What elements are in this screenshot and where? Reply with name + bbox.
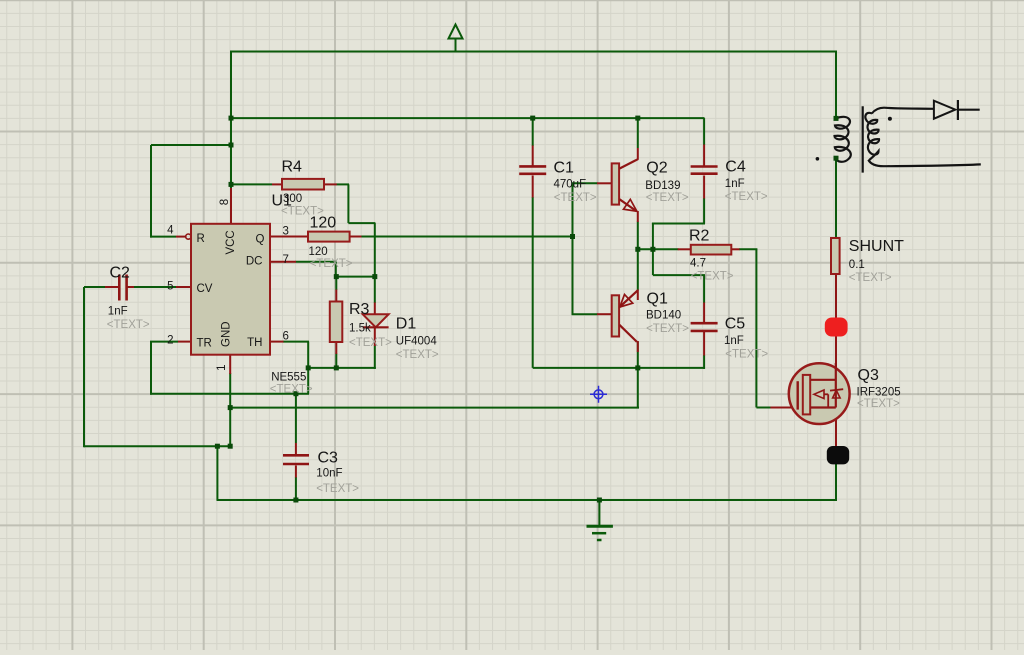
svg-text:<TEXT>: <TEXT>	[554, 192, 597, 204]
svg-text:0.1: 0.1	[849, 259, 865, 271]
svg-text:4: 4	[167, 225, 174, 237]
svg-text:<TEXT>: <TEXT>	[270, 383, 313, 395]
svg-text:VCC: VCC	[225, 230, 237, 254]
svg-text:<TEXT>: <TEXT>	[691, 270, 734, 282]
svg-text:Q3: Q3	[858, 367, 879, 384]
svg-text:<TEXT>: <TEXT>	[396, 349, 439, 361]
svg-text:8: 8	[219, 199, 231, 205]
svg-text:D1: D1	[396, 316, 417, 333]
svg-text:CV: CV	[197, 283, 213, 295]
svg-text:<TEXT>: <TEXT>	[310, 258, 353, 270]
svg-text:C2: C2	[110, 265, 131, 282]
svg-text:UF4004: UF4004	[396, 336, 438, 348]
svg-text:<TEXT>: <TEXT>	[725, 191, 768, 203]
svg-text:TH: TH	[247, 337, 262, 349]
svg-text:R: R	[197, 233, 205, 245]
svg-text:<TEXT>: <TEXT>	[646, 192, 689, 204]
svg-text:R4: R4	[282, 159, 303, 176]
svg-text:6: 6	[283, 331, 289, 343]
svg-text:DC: DC	[246, 256, 263, 268]
svg-text:<TEXT>: <TEXT>	[107, 319, 150, 331]
svg-text:C4: C4	[725, 158, 746, 175]
svg-text:1.5k: 1.5k	[349, 323, 371, 335]
svg-text:GND: GND	[220, 321, 232, 347]
svg-text:<TEXT>: <TEXT>	[857, 398, 900, 410]
svg-text:<TEXT>: <TEXT>	[849, 272, 892, 284]
svg-text:4.7: 4.7	[690, 258, 706, 270]
svg-text:Q1: Q1	[647, 291, 668, 308]
svg-text:<TEXT>: <TEXT>	[316, 483, 359, 495]
svg-text:TR: TR	[197, 337, 212, 349]
svg-text:3: 3	[283, 226, 289, 238]
svg-text:C3: C3	[318, 450, 339, 467]
svg-text:C5: C5	[725, 316, 746, 333]
svg-text:<TEXT>: <TEXT>	[646, 323, 689, 335]
svg-text:10nF: 10nF	[316, 467, 342, 479]
svg-text:C1: C1	[554, 160, 575, 177]
svg-text:<TEXT>: <TEXT>	[725, 348, 768, 360]
svg-text:BD140: BD140	[646, 310, 681, 322]
svg-text:120: 120	[309, 246, 328, 258]
svg-text:1nF: 1nF	[724, 335, 744, 347]
svg-text:7: 7	[283, 254, 289, 266]
svg-text:1: 1	[216, 364, 228, 370]
svg-text:1nF: 1nF	[108, 305, 128, 317]
svg-text:SHUNT: SHUNT	[849, 238, 904, 255]
svg-text:BD139: BD139	[645, 180, 680, 192]
svg-text:Q: Q	[256, 233, 265, 245]
svg-text:R3: R3	[349, 301, 370, 318]
svg-text:IRF3205: IRF3205	[857, 387, 901, 399]
svg-text:<TEXT>: <TEXT>	[349, 337, 392, 349]
svg-text:2: 2	[167, 335, 173, 347]
svg-text:Q2: Q2	[646, 159, 667, 176]
svg-text:300: 300	[283, 193, 302, 205]
svg-text:5: 5	[167, 281, 173, 293]
svg-text:1nF: 1nF	[725, 178, 745, 190]
svg-text:<TEXT>: <TEXT>	[281, 206, 324, 218]
svg-text:470uF: 470uF	[554, 178, 587, 190]
svg-text:NE555: NE555	[271, 372, 306, 384]
svg-text:R2: R2	[689, 228, 710, 245]
